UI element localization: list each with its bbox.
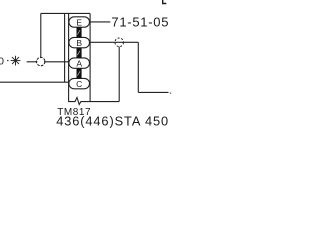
wire from dashed circle down — [118, 47, 120, 102]
bar between A and C — [77, 68, 82, 78]
signal unit box bottom with break zigzag — [69, 98, 120, 105]
lens oval C — [69, 78, 90, 88]
signal unit box right edge — [89, 13, 91, 102]
wire stub left of lamp — [27, 61, 37, 63]
wire right vertical — [137, 42, 139, 92]
wire lamp to oval A — [45, 61, 69, 63]
lamp circle node — [37, 57, 45, 65]
svg-text:0: 0 — [0, 56, 4, 68]
lens oval B — [69, 37, 90, 47]
wire lower left to oval C — [0, 81, 69, 83]
svg-text:E: E — [76, 17, 82, 27]
lens oval E — [69, 17, 90, 27]
wire top horizontal line — [41, 12, 90, 14]
svg-text:B: B — [76, 38, 82, 48]
wire bottom right horizontal — [138, 91, 168, 93]
bar between E and B — [77, 27, 82, 37]
wire oval B to right — [90, 41, 139, 43]
wire left vertical to lamp circle — [40, 13, 42, 57]
wire middle vertical — [64, 13, 66, 82]
lens oval A — [69, 58, 90, 68]
signal unit box left edge — [68, 13, 70, 102]
asterisk symbol — [11, 56, 21, 66]
partial letter mark top right — [163, 0, 167, 4]
svg-text:436(446)STA 450: 436(446)STA 450 — [56, 113, 169, 128]
stray dot at wire end — [170, 92, 171, 93]
svg-text:A: A — [76, 58, 82, 68]
bar between B and A — [77, 48, 82, 58]
wire oval E to label — [90, 21, 111, 23]
dashed circle node on wire B — [115, 38, 124, 47]
separator dot — [7, 60, 9, 62]
svg-text:C: C — [76, 79, 82, 89]
svg-text:71-51-05: 71-51-05 — [111, 14, 169, 29]
